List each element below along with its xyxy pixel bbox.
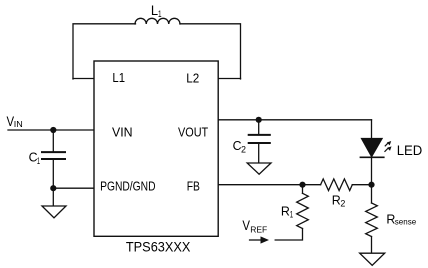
svg-text:V: V [242, 218, 250, 233]
node VREF label [242, 218, 267, 234]
resistor R2 [321, 179, 353, 191]
wire: R1 top lead [302, 185, 304, 194]
node VIN label [7, 114, 23, 129]
ground (input) [42, 206, 66, 218]
node FB junction dot [299, 182, 305, 188]
svg-text:VIN: VIN [112, 126, 133, 140]
wire: L1 pin to loop [73, 78, 94, 80]
svg-text:LED: LED [397, 143, 423, 158]
capacitor C2 [248, 135, 271, 143]
svg-text:IN: IN [14, 120, 23, 129]
svg-text:FB: FB [187, 180, 200, 194]
ground (output) [247, 163, 271, 174]
svg-text:1: 1 [37, 156, 40, 166]
svg-text:L1: L1 [112, 71, 125, 85]
op-amp/IC U1 TPS63XXX body [94, 61, 218, 236]
svg-text:R: R [281, 204, 290, 219]
wire: VIN input [8, 129, 94, 131]
wire: top loop right side (across and down to L2 pin) [180, 24, 241, 79]
wire: R1 bottom lead to VREF wire [275, 229, 302, 241]
svg-text:2: 2 [340, 199, 345, 209]
wire: C1 bottom lead [52, 160, 54, 188]
wire: Rsense bottom lead [371, 237, 373, 254]
svg-text:VOUT: VOUT [178, 126, 208, 140]
svg-text:2: 2 [241, 145, 246, 155]
wire: L2 pin to loop [218, 78, 240, 80]
inductor L1 [135, 18, 180, 24]
value label L1 [151, 3, 162, 19]
wire: C2 bottom lead [258, 144, 260, 163]
svg-text:1: 1 [290, 210, 293, 220]
svg-text:REF: REF [250, 224, 267, 234]
value label R2 [332, 192, 346, 208]
wire: FB pin to node [218, 184, 302, 186]
wire: C1 top lead [52, 130, 54, 151]
node VIN junction dot [50, 127, 56, 133]
node GND junction dot [50, 185, 56, 191]
svg-text:L2: L2 [186, 71, 199, 85]
svg-text:TPS63XXX: TPS63XXX [126, 240, 190, 255]
resistor R1 [297, 193, 309, 228]
node LED/Rsense junction dot [368, 182, 374, 188]
node VOUT junction dot [256, 117, 262, 123]
value label Rsense [386, 212, 416, 227]
wire: C2 top lead [258, 120, 260, 134]
VREF arrow [249, 236, 269, 243]
resistor Rsense [366, 203, 378, 237]
value label C2 [233, 138, 246, 154]
wire: Rsense top lead [371, 185, 373, 203]
value label R1 [281, 204, 293, 220]
value label C1 [29, 149, 41, 166]
wire: node down to ground [52, 188, 54, 206]
svg-text:1: 1 [158, 9, 162, 19]
svg-text:R: R [332, 192, 341, 207]
svg-text:PGND/GND: PGND/GND [100, 180, 155, 194]
svg-text:sense: sense [395, 217, 417, 227]
wire: R2 to LED node [352, 184, 371, 186]
wire: top loop left side (L1 pin up and across) [73, 24, 136, 79]
wire: LED cathode to node [371, 157, 373, 185]
wire: FB node to R2 [303, 184, 321, 186]
wire: PGND/GND pin to node [53, 187, 94, 189]
capacitor C1 [41, 152, 66, 159]
wire: VOUT output [218, 119, 371, 121]
ground (Rsense) [360, 253, 385, 265]
LED D1 [360, 138, 392, 157]
wire: LED anode lead [371, 120, 373, 139]
